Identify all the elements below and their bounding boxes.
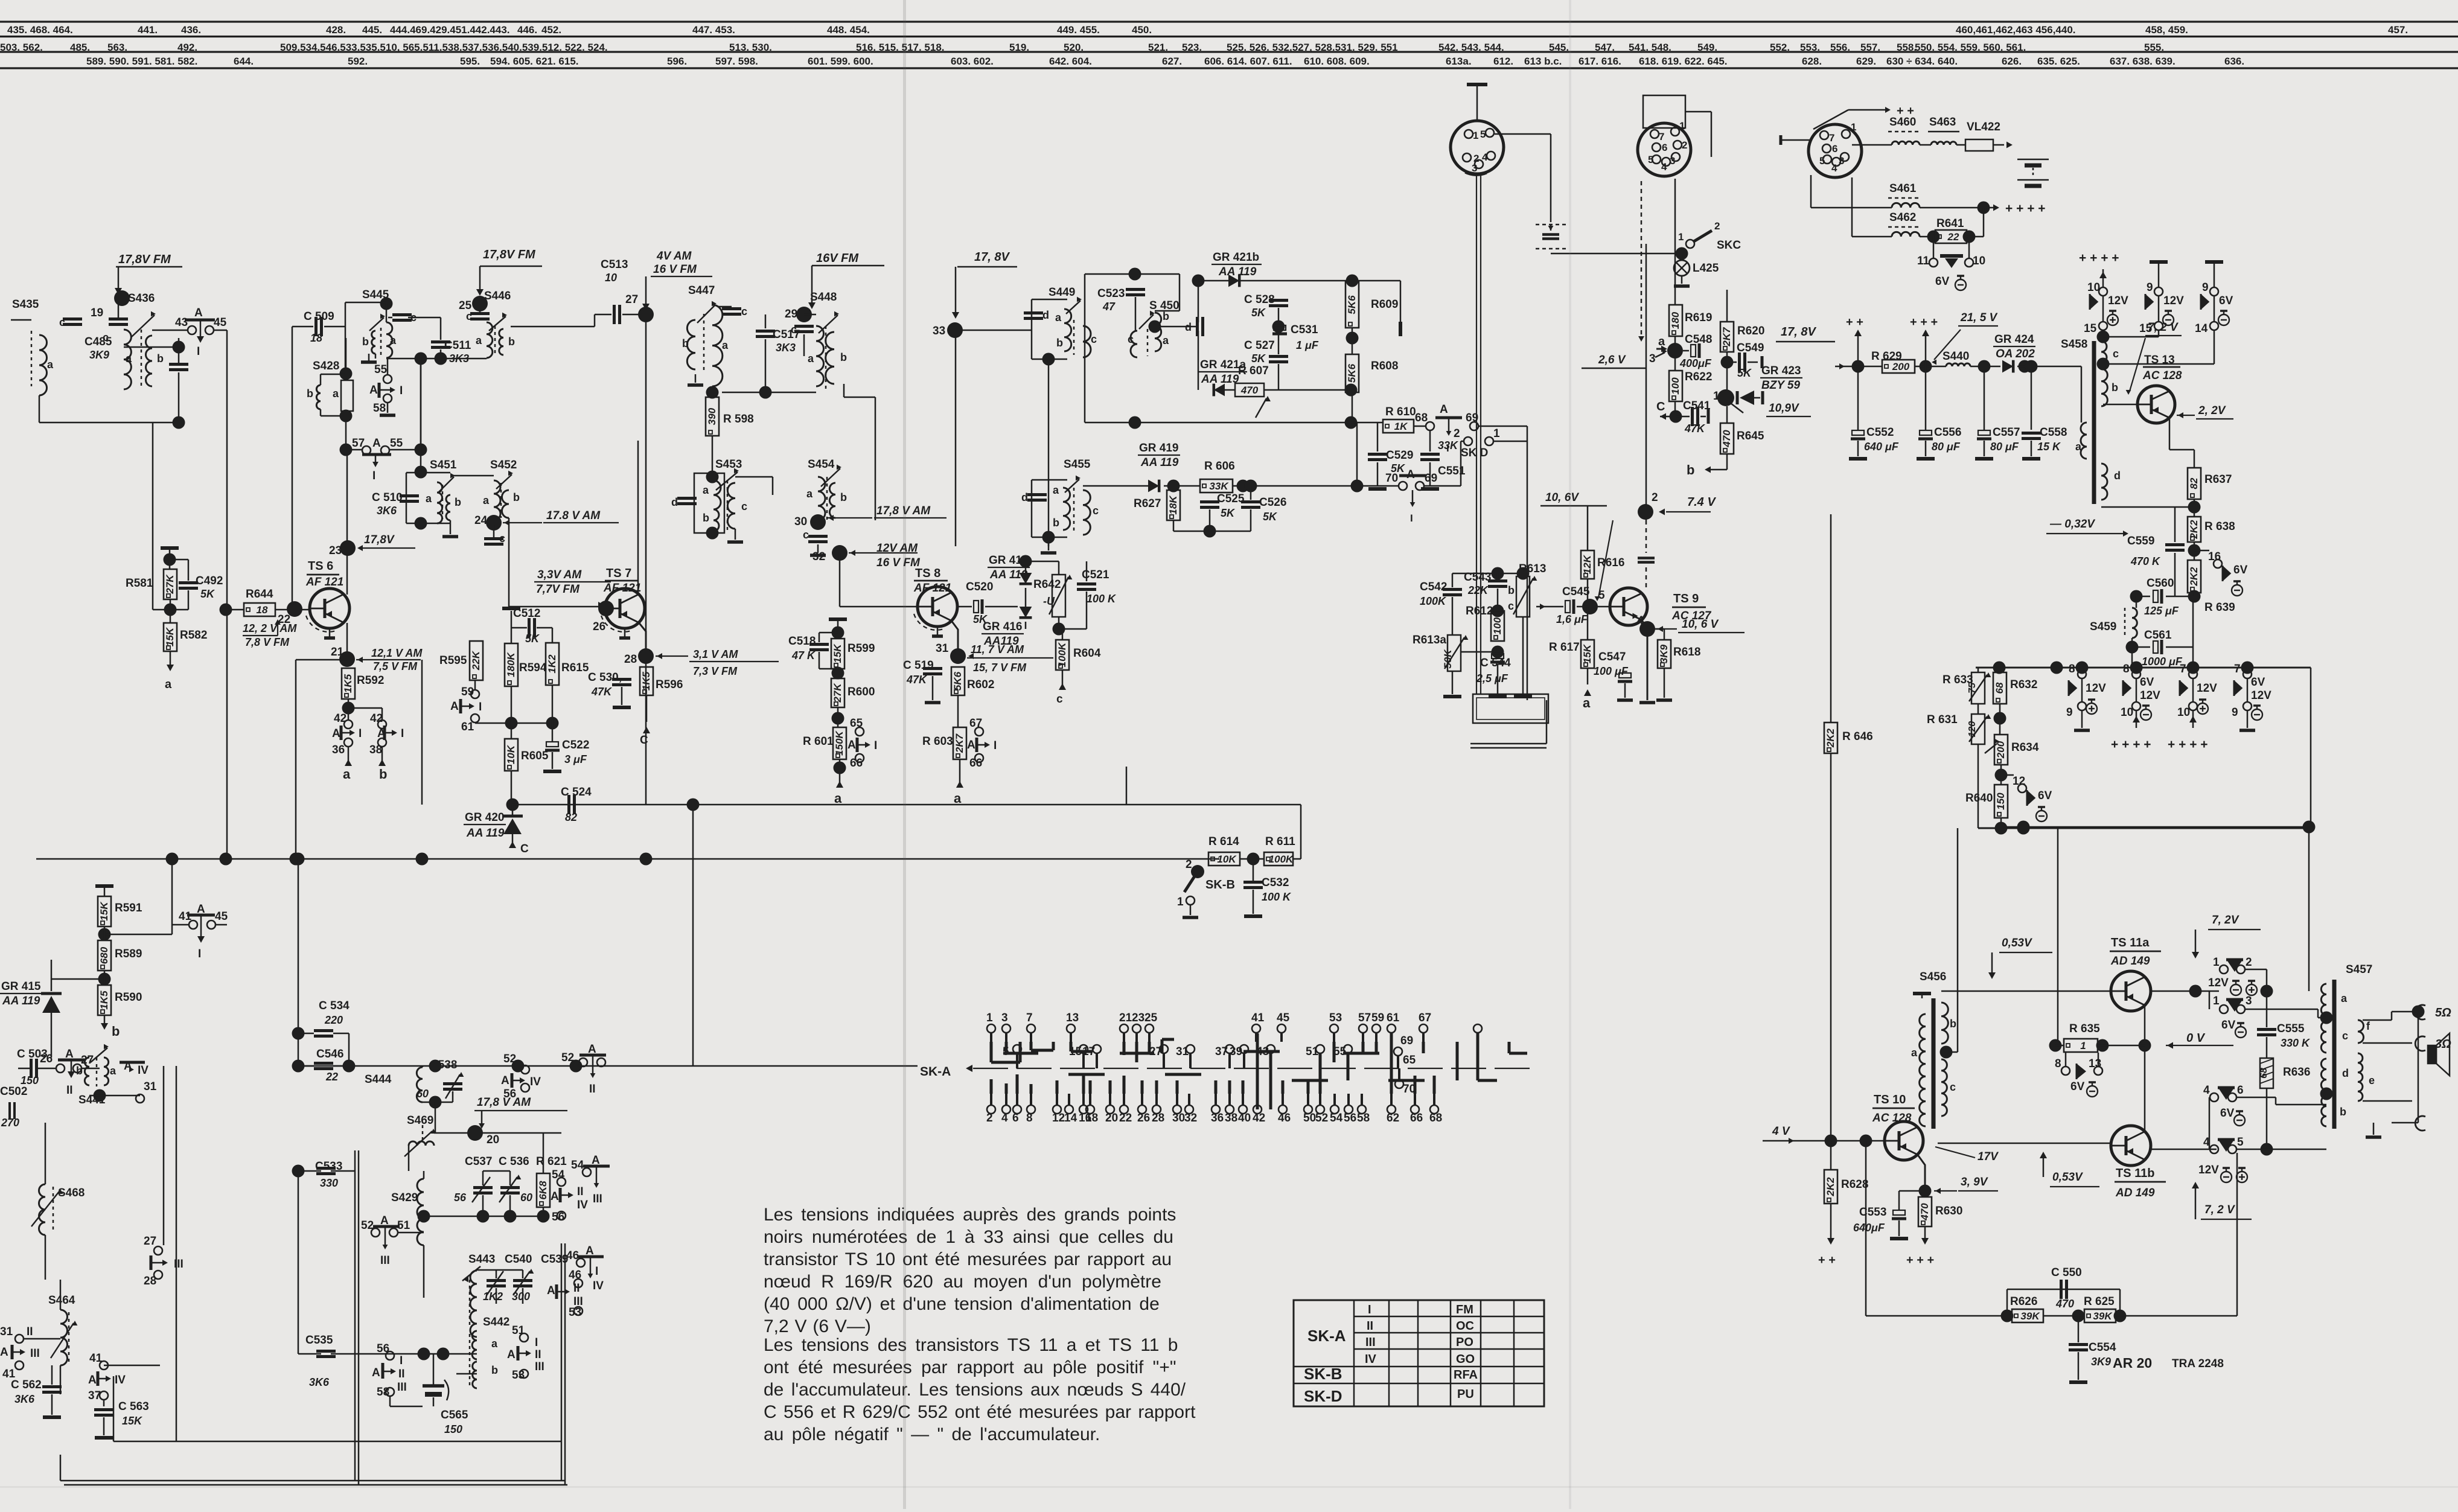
svg-text:1,6 μF: 1,6 μF bbox=[1556, 613, 1588, 625]
svg-text:c: c bbox=[791, 324, 797, 336]
svg-text:7: 7 bbox=[1659, 131, 1664, 142]
svg-text:AD 149: AD 149 bbox=[2115, 1187, 2155, 1199]
svg-text:16V FM: 16V FM bbox=[816, 252, 859, 265]
svg-text:470: 470 bbox=[2055, 1298, 2074, 1310]
svg-text:27: 27 bbox=[144, 1235, 156, 1248]
svg-text:C: C bbox=[640, 734, 648, 747]
svg-text:444.469.429.451.442.443.: 444.469.429.451.442.443. bbox=[390, 24, 510, 36]
svg-text:TS 7: TS 7 bbox=[606, 567, 631, 580]
svg-text:640 μF: 640 μF bbox=[1864, 441, 1899, 453]
svg-text:150: 150 bbox=[21, 1074, 39, 1086]
svg-text:15K: 15K bbox=[832, 643, 843, 663]
svg-text:-U: -U bbox=[1043, 595, 1055, 607]
svg-text:70: 70 bbox=[1385, 472, 1398, 485]
svg-text:R602: R602 bbox=[967, 678, 994, 691]
svg-text:b: b bbox=[508, 336, 515, 348]
svg-text:16 V FM: 16 V FM bbox=[653, 263, 697, 276]
svg-text:A: A bbox=[450, 700, 459, 713]
svg-text:+ +: + + bbox=[1846, 316, 1863, 329]
svg-text:b: b bbox=[307, 388, 313, 400]
svg-text:470 K: 470 K bbox=[2130, 555, 2161, 567]
svg-text:3K9: 3K9 bbox=[89, 349, 109, 361]
svg-text:I: I bbox=[400, 384, 403, 397]
svg-text:PU: PU bbox=[1457, 1388, 1474, 1401]
svg-text:b: b bbox=[513, 491, 520, 503]
svg-text:OC: OC bbox=[1456, 1319, 1474, 1333]
svg-text:7: 7 bbox=[1026, 1012, 1033, 1024]
svg-text:TRA 2248: TRA 2248 bbox=[2172, 1357, 2224, 1370]
svg-text:R637: R637 bbox=[2204, 473, 2232, 486]
svg-text:TS 11b: TS 11b bbox=[2116, 1167, 2154, 1180]
svg-text:AC 128: AC 128 bbox=[2142, 369, 2182, 382]
svg-text:c: c bbox=[2113, 348, 2119, 360]
svg-text:41: 41 bbox=[1251, 1012, 1265, 1024]
svg-text:b: b bbox=[76, 1065, 83, 1077]
svg-text:55: 55 bbox=[374, 363, 388, 376]
svg-text:C 562: C 562 bbox=[11, 1379, 42, 1391]
svg-text:17, 8V: 17, 8V bbox=[1781, 325, 1816, 339]
svg-text:+ + +: + + + bbox=[1906, 1254, 1934, 1267]
svg-text:441.: 441. bbox=[138, 24, 158, 36]
svg-text:45: 45 bbox=[215, 910, 228, 923]
svg-text:6V: 6V bbox=[2070, 1080, 2085, 1093]
svg-text:12V: 12V bbox=[2086, 682, 2106, 695]
svg-text:100: 100 bbox=[1670, 377, 1681, 395]
svg-text:523.: 523. bbox=[1182, 42, 1202, 53]
svg-text:31: 31 bbox=[144, 1080, 157, 1093]
svg-text:PO: PO bbox=[1456, 1336, 1473, 1349]
svg-text:542. 543. 544.: 542. 543. 544. bbox=[1438, 42, 1504, 53]
svg-text:1K5: 1K5 bbox=[342, 674, 354, 693]
svg-text:IV: IV bbox=[577, 1199, 588, 1211]
svg-text:2K2: 2K2 bbox=[2188, 567, 2200, 587]
svg-text:7,8 V FM: 7,8 V FM bbox=[245, 636, 290, 648]
svg-text:7: 7 bbox=[2180, 663, 2186, 675]
svg-text:I: I bbox=[400, 1354, 403, 1367]
svg-text:100 μF: 100 μF bbox=[1594, 665, 1629, 677]
svg-text:R641: R641 bbox=[1936, 217, 1964, 230]
svg-text:1K: 1K bbox=[1394, 421, 1408, 432]
svg-text:R609: R609 bbox=[1371, 298, 1398, 311]
svg-text:51: 51 bbox=[397, 1219, 410, 1232]
svg-text:47K: 47K bbox=[1684, 423, 1706, 435]
svg-text:27: 27 bbox=[625, 293, 638, 306]
svg-text:au pôle négatif " — " de l'acc: au pôle négatif " — " de l'accumulateur. bbox=[764, 1424, 1100, 1444]
svg-text:12V: 12V bbox=[2108, 295, 2128, 307]
svg-text:10: 10 bbox=[605, 272, 617, 284]
svg-text:541. 548.: 541. 548. bbox=[1629, 42, 1671, 53]
svg-text:R 638: R 638 bbox=[2204, 520, 2235, 533]
svg-text:100: 100 bbox=[1492, 617, 1503, 634]
svg-text:0,53V: 0,53V bbox=[2002, 937, 2032, 949]
svg-text:S460: S460 bbox=[1889, 116, 1916, 129]
svg-text:R630: R630 bbox=[1935, 1205, 1962, 1217]
svg-text:b: b bbox=[2112, 381, 2118, 394]
svg-text:1K5: 1K5 bbox=[98, 990, 110, 1010]
svg-text:594. 605. 621. 615.: 594. 605. 621. 615. bbox=[490, 56, 579, 67]
svg-text:a: a bbox=[806, 488, 813, 500]
svg-text:7,3 V FM: 7,3 V FM bbox=[693, 665, 738, 677]
svg-text:125 μF: 125 μF bbox=[2144, 605, 2179, 617]
svg-text:II: II bbox=[573, 1282, 580, 1295]
svg-text:C 556 et R 629/C 552 ont été m: C 556 et R 629/C 552 ont été mesurées pa… bbox=[764, 1402, 1196, 1422]
svg-text:C 530,: C 530, bbox=[588, 671, 622, 684]
svg-text:a: a bbox=[476, 334, 482, 346]
svg-text:28: 28 bbox=[144, 1275, 156, 1287]
svg-text:637. 638. 639.: 637. 638. 639. bbox=[2110, 56, 2175, 67]
svg-text:I: I bbox=[359, 727, 362, 740]
svg-text:C539: C539 bbox=[541, 1253, 568, 1266]
svg-text:33K: 33K bbox=[1209, 480, 1229, 492]
svg-text:b: b bbox=[379, 767, 387, 782]
svg-text:0 V: 0 V bbox=[2186, 1032, 2206, 1045]
svg-text:3: 3 bbox=[1839, 155, 1844, 167]
svg-text:A: A bbox=[1440, 403, 1448, 416]
svg-text:448. 454.: 448. 454. bbox=[827, 24, 870, 36]
svg-text:I: I bbox=[994, 739, 997, 752]
svg-text:R596: R596 bbox=[656, 678, 683, 691]
svg-text:9: 9 bbox=[2147, 281, 2153, 294]
svg-text:7,7V FM: 7,7V FM bbox=[536, 583, 580, 596]
svg-text:d: d bbox=[1021, 491, 1028, 503]
svg-text:C546: C546 bbox=[316, 1048, 343, 1061]
svg-text:II: II bbox=[1367, 1319, 1373, 1333]
svg-text:I: I bbox=[479, 701, 482, 713]
svg-text:33K: 33K bbox=[1438, 439, 1459, 451]
svg-text:R591: R591 bbox=[115, 902, 142, 914]
svg-text:180K: 180K bbox=[505, 651, 517, 677]
svg-text:d: d bbox=[671, 496, 678, 508]
svg-text:c: c bbox=[2342, 1030, 2348, 1042]
svg-text:38: 38 bbox=[369, 744, 382, 756]
svg-text:AR 20: AR 20 bbox=[2113, 1355, 2152, 1371]
svg-text:6V: 6V bbox=[2251, 676, 2265, 689]
svg-text:100K: 100K bbox=[1056, 642, 1068, 667]
svg-text:C549: C549 bbox=[1737, 342, 1764, 354]
svg-text:C559: C559 bbox=[2127, 535, 2154, 547]
svg-text:60: 60 bbox=[417, 1088, 429, 1100]
svg-text:1: 1 bbox=[1473, 130, 1478, 141]
svg-text:5: 5 bbox=[1648, 154, 1653, 165]
svg-text:R 646: R 646 bbox=[1842, 730, 1873, 743]
svg-text:+ + + +: + + + + bbox=[2005, 202, 2046, 215]
svg-text:b: b bbox=[1687, 462, 1694, 477]
svg-text:I: I bbox=[197, 345, 200, 358]
svg-text:d: d bbox=[2342, 1067, 2349, 1079]
svg-text:c: c bbox=[1128, 333, 1134, 345]
svg-text:GR 415: GR 415 bbox=[1, 980, 41, 993]
svg-text:31: 31 bbox=[936, 642, 949, 655]
svg-text:4: 4 bbox=[1831, 162, 1837, 174]
svg-text:A: A bbox=[88, 1374, 97, 1386]
svg-text:R605: R605 bbox=[521, 750, 549, 762]
svg-text:2K2: 2K2 bbox=[1825, 1177, 1836, 1197]
svg-text:39K: 39K bbox=[2093, 1310, 2113, 1322]
svg-text:6: 6 bbox=[1832, 143, 1837, 155]
svg-text:SK-A: SK-A bbox=[1307, 1327, 1346, 1345]
svg-text:0,53V: 0,53V bbox=[2052, 1171, 2083, 1184]
svg-text:III: III bbox=[380, 1254, 390, 1267]
svg-text:5K6: 5K6 bbox=[1346, 295, 1358, 314]
svg-text:1: 1 bbox=[1851, 121, 1856, 133]
svg-text:R 617: R 617 bbox=[1549, 641, 1580, 654]
svg-text:c: c bbox=[466, 310, 472, 322]
svg-text:AA 119: AA 119 bbox=[1140, 456, 1179, 469]
svg-text:390: 390 bbox=[706, 407, 718, 425]
svg-text:C492: C492 bbox=[196, 575, 223, 587]
svg-text:R 639: R 639 bbox=[2204, 601, 2235, 614]
svg-text:I: I bbox=[595, 1265, 598, 1278]
svg-text:17,8V FM: 17,8V FM bbox=[118, 253, 171, 266]
svg-text:7,5 V FM: 7,5 V FM bbox=[373, 660, 418, 672]
svg-text:S447: S447 bbox=[688, 284, 715, 297]
svg-text:BZY 59: BZY 59 bbox=[1761, 379, 1801, 392]
svg-text:C556: C556 bbox=[1934, 426, 1961, 439]
svg-text:7: 7 bbox=[2234, 663, 2241, 675]
svg-text:47 K: 47 K bbox=[791, 649, 816, 662]
svg-text:69: 69 bbox=[1425, 472, 1437, 485]
svg-text:435. 468. 464.: 435. 468. 464. bbox=[7, 24, 73, 36]
svg-text:OA 202: OA 202 bbox=[1996, 348, 2035, 360]
svg-text:33: 33 bbox=[933, 325, 945, 337]
svg-text:b: b bbox=[2340, 1106, 2346, 1118]
svg-text:C523: C523 bbox=[1097, 287, 1125, 300]
svg-text:SK-D: SK-D bbox=[1304, 1387, 1342, 1405]
svg-text:C 524: C 524 bbox=[561, 786, 592, 799]
svg-text:19: 19 bbox=[91, 307, 103, 319]
svg-text:C: C bbox=[520, 843, 529, 855]
svg-text:C557: C557 bbox=[1993, 426, 2020, 439]
svg-text:+ + + +: + + + + bbox=[2111, 738, 2151, 751]
svg-text:12V: 12V bbox=[2198, 1164, 2219, 1176]
svg-text:a: a bbox=[1163, 334, 1169, 346]
svg-text:642. 604.: 642. 604. bbox=[1049, 56, 1092, 67]
svg-text:nœud R 169/R 620 au moyen d'un: nœud R 169/R 620 au moyen d'un polymètre bbox=[764, 1272, 1161, 1292]
svg-text:b: b bbox=[157, 352, 164, 365]
svg-text:noirs numérotées de 1 à 33 ain: noirs numérotées de 1 à 33 ainsi que cel… bbox=[764, 1227, 1173, 1247]
svg-text:61: 61 bbox=[1387, 1012, 1400, 1024]
svg-text:22: 22 bbox=[1947, 231, 1959, 243]
svg-text:a: a bbox=[47, 359, 54, 371]
svg-text:C 536: C 536 bbox=[499, 1155, 529, 1168]
svg-text:+ + + +: + + + + bbox=[2079, 251, 2119, 265]
svg-text:IV: IV bbox=[138, 1064, 148, 1077]
svg-text:3K3: 3K3 bbox=[776, 342, 796, 354]
svg-text:R640: R640 bbox=[1965, 792, 1993, 805]
svg-text:SKC: SKC bbox=[1717, 239, 1741, 252]
svg-text:S458: S458 bbox=[2061, 338, 2087, 351]
svg-text:C522: C522 bbox=[562, 739, 589, 751]
svg-text:9: 9 bbox=[2066, 706, 2073, 719]
svg-text:636.: 636. bbox=[2224, 56, 2244, 67]
svg-text:2: 2 bbox=[1682, 139, 1687, 151]
svg-text:C554: C554 bbox=[2089, 1341, 2116, 1354]
svg-text:446.: 446. bbox=[517, 24, 537, 36]
svg-text:GR 419: GR 419 bbox=[1139, 442, 1178, 455]
svg-text:18: 18 bbox=[257, 604, 268, 616]
svg-text:R604: R604 bbox=[1073, 647, 1101, 660]
svg-text:II: II bbox=[577, 1185, 584, 1198]
svg-text:III: III bbox=[30, 1347, 40, 1360]
svg-text:GR 424: GR 424 bbox=[1994, 333, 2034, 346]
svg-text:R 611: R 611 bbox=[1265, 835, 1295, 848]
svg-text:R 606: R 606 bbox=[1204, 460, 1235, 473]
svg-text:A: A bbox=[507, 1348, 516, 1361]
svg-text:GR 416: GR 416 bbox=[983, 620, 1022, 633]
svg-text:1K2: 1K2 bbox=[546, 654, 558, 674]
svg-text:2: 2 bbox=[1454, 427, 1460, 440]
svg-text:509.534.546.533.535.510, 565.: 509.534.546.533.535.510, 565.511.538.537… bbox=[280, 42, 608, 53]
svg-text:a: a bbox=[808, 352, 814, 365]
svg-text:18: 18 bbox=[310, 332, 322, 344]
svg-text:a: a bbox=[426, 493, 432, 505]
svg-text:3K9: 3K9 bbox=[1658, 644, 1670, 663]
svg-text:R 610: R 610 bbox=[1385, 406, 1416, 418]
svg-text:8: 8 bbox=[2055, 1057, 2061, 1070]
svg-text:A: A bbox=[551, 1190, 559, 1203]
svg-text:S469: S469 bbox=[407, 1114, 433, 1127]
svg-text:52: 52 bbox=[503, 1053, 516, 1065]
svg-text:S457: S457 bbox=[2346, 963, 2372, 976]
svg-text:17V: 17V bbox=[1978, 1150, 1999, 1163]
svg-text:17,8 V AM: 17,8 V AM bbox=[477, 1096, 531, 1109]
svg-text:5K6: 5K6 bbox=[1346, 363, 1358, 383]
svg-text:a: a bbox=[1911, 1047, 1918, 1059]
svg-text:17.8 V AM: 17.8 V AM bbox=[546, 509, 601, 522]
svg-text:c: c bbox=[1508, 600, 1514, 612]
svg-text:AA 119: AA 119 bbox=[466, 827, 505, 840]
svg-text:597. 598.: 597. 598. bbox=[715, 56, 758, 67]
svg-text:I: I bbox=[874, 739, 877, 752]
svg-text:5: 5 bbox=[1819, 155, 1825, 167]
svg-text:R 601: R 601 bbox=[803, 735, 834, 748]
svg-text:transistor TS 10 ont été mesur: transistor TS 10 ont été mesurées par ra… bbox=[764, 1249, 1172, 1269]
svg-text:3,1 V AM: 3,1 V AM bbox=[693, 648, 738, 660]
svg-text:C 550: C 550 bbox=[2051, 1266, 2082, 1279]
svg-text:A: A bbox=[369, 384, 378, 397]
svg-text:b: b bbox=[491, 1364, 498, 1376]
svg-text:TS 11a: TS 11a bbox=[2111, 936, 2150, 949]
svg-text:C: C bbox=[1656, 400, 1665, 413]
svg-text:12V: 12V bbox=[2197, 682, 2217, 695]
svg-text:26: 26 bbox=[593, 620, 605, 633]
svg-text:3K9: 3K9 bbox=[2091, 1356, 2111, 1368]
svg-text:5K: 5K bbox=[1263, 511, 1278, 523]
svg-text:1: 1 bbox=[1679, 120, 1685, 132]
svg-text:595.: 595. bbox=[460, 56, 480, 67]
svg-text:13: 13 bbox=[1066, 1012, 1079, 1024]
svg-text:C561: C561 bbox=[2144, 629, 2172, 642]
svg-text:S452: S452 bbox=[490, 459, 517, 471]
svg-text:23: 23 bbox=[329, 544, 342, 557]
svg-text:GR 423: GR 423 bbox=[1761, 365, 1801, 377]
svg-text:a: a bbox=[834, 791, 842, 806]
svg-text:+ + + +: + + + + bbox=[2168, 738, 2208, 751]
svg-text:2,5 μF: 2,5 μF bbox=[1476, 672, 1508, 684]
svg-text:I: I bbox=[1368, 1303, 1371, 1316]
svg-text:AA 119: AA 119 bbox=[2, 995, 40, 1007]
svg-text:A: A bbox=[332, 727, 340, 740]
svg-text:3K6: 3K6 bbox=[309, 1376, 330, 1388]
svg-text:60: 60 bbox=[520, 1191, 532, 1204]
svg-text:6V: 6V bbox=[2219, 295, 2233, 307]
svg-text:GR 421b: GR 421b bbox=[1213, 251, 1259, 264]
svg-text:26: 26 bbox=[40, 1053, 53, 1065]
svg-text:3K6: 3K6 bbox=[377, 505, 397, 517]
svg-text:R626: R626 bbox=[2010, 1295, 2037, 1308]
svg-text:27K: 27K bbox=[164, 574, 176, 595]
svg-text:C513: C513 bbox=[601, 258, 628, 271]
svg-text:TS 6: TS 6 bbox=[308, 560, 333, 573]
svg-text:180: 180 bbox=[1670, 311, 1681, 329]
svg-text:47K: 47K bbox=[906, 674, 928, 686]
svg-text:b: b bbox=[1053, 517, 1059, 529]
svg-text:15K: 15K bbox=[98, 901, 110, 921]
svg-text:58: 58 bbox=[373, 402, 386, 415]
svg-text:613a.: 613a. bbox=[1446, 56, 1472, 67]
svg-text:25: 25 bbox=[1144, 1012, 1158, 1024]
svg-text:640μF: 640μF bbox=[1853, 1222, 1885, 1234]
svg-text:TS 9: TS 9 bbox=[1673, 592, 1699, 605]
svg-text:11, 7 V AM: 11, 7 V AM bbox=[971, 643, 1024, 656]
svg-text:S440: S440 bbox=[1942, 350, 1969, 363]
svg-text:b: b bbox=[840, 351, 847, 363]
svg-text:10: 10 bbox=[2177, 706, 2190, 719]
svg-text:C552: C552 bbox=[1866, 426, 1894, 439]
svg-text:6V: 6V bbox=[2038, 789, 2052, 802]
svg-text:C565: C565 bbox=[441, 1409, 468, 1421]
svg-text:b: b bbox=[682, 337, 689, 349]
svg-text:— 0,32V: — 0,32V bbox=[2049, 518, 2095, 531]
svg-text:4: 4 bbox=[2203, 1084, 2210, 1097]
svg-text:36: 36 bbox=[332, 744, 345, 756]
svg-text:27K: 27K bbox=[832, 683, 843, 703]
svg-text:C542: C542 bbox=[1420, 581, 1447, 593]
svg-text:S446: S446 bbox=[484, 290, 511, 302]
svg-text:R622: R622 bbox=[1685, 371, 1712, 383]
svg-text:5Ω: 5Ω bbox=[2435, 1006, 2451, 1019]
svg-text:5K: 5K bbox=[1251, 307, 1266, 319]
svg-text:630 ÷ 634. 640.: 630 ÷ 634. 640. bbox=[1886, 56, 1958, 67]
svg-text:1K2: 1K2 bbox=[483, 1290, 503, 1303]
svg-text:A: A bbox=[0, 1346, 8, 1359]
svg-text:10: 10 bbox=[2121, 706, 2133, 719]
svg-text:R592: R592 bbox=[357, 674, 384, 687]
svg-text:2,6 V: 2,6 V bbox=[1598, 354, 1626, 366]
svg-text:b: b bbox=[840, 491, 847, 503]
svg-text:5K: 5K bbox=[525, 633, 540, 645]
svg-text:R618: R618 bbox=[1673, 646, 1700, 659]
svg-text:9: 9 bbox=[2202, 281, 2209, 294]
svg-text:17, 8V: 17, 8V bbox=[974, 250, 1010, 264]
svg-text:5: 5 bbox=[1480, 129, 1486, 140]
svg-text:c: c bbox=[1056, 693, 1063, 706]
svg-text:57: 57 bbox=[1358, 1012, 1371, 1024]
svg-text:516. 515. 517. 518.: 516. 515. 517. 518. bbox=[856, 42, 945, 53]
svg-text:S456: S456 bbox=[1920, 971, 1946, 983]
svg-text:C540: C540 bbox=[505, 1253, 532, 1266]
svg-text:C529: C529 bbox=[1386, 449, 1413, 462]
svg-text:TS 13: TS 13 bbox=[2144, 354, 2175, 366]
svg-text:IV: IV bbox=[530, 1076, 541, 1088]
svg-text:I: I bbox=[198, 948, 201, 960]
svg-text:R 603: R 603 bbox=[922, 735, 953, 748]
svg-text:R 607: R 607 bbox=[1238, 365, 1269, 377]
svg-text:a: a bbox=[1583, 695, 1591, 710]
svg-text:III: III bbox=[1365, 1336, 1376, 1349]
svg-text:a: a bbox=[2075, 441, 2082, 453]
svg-text:3: 3 bbox=[1670, 155, 1675, 167]
